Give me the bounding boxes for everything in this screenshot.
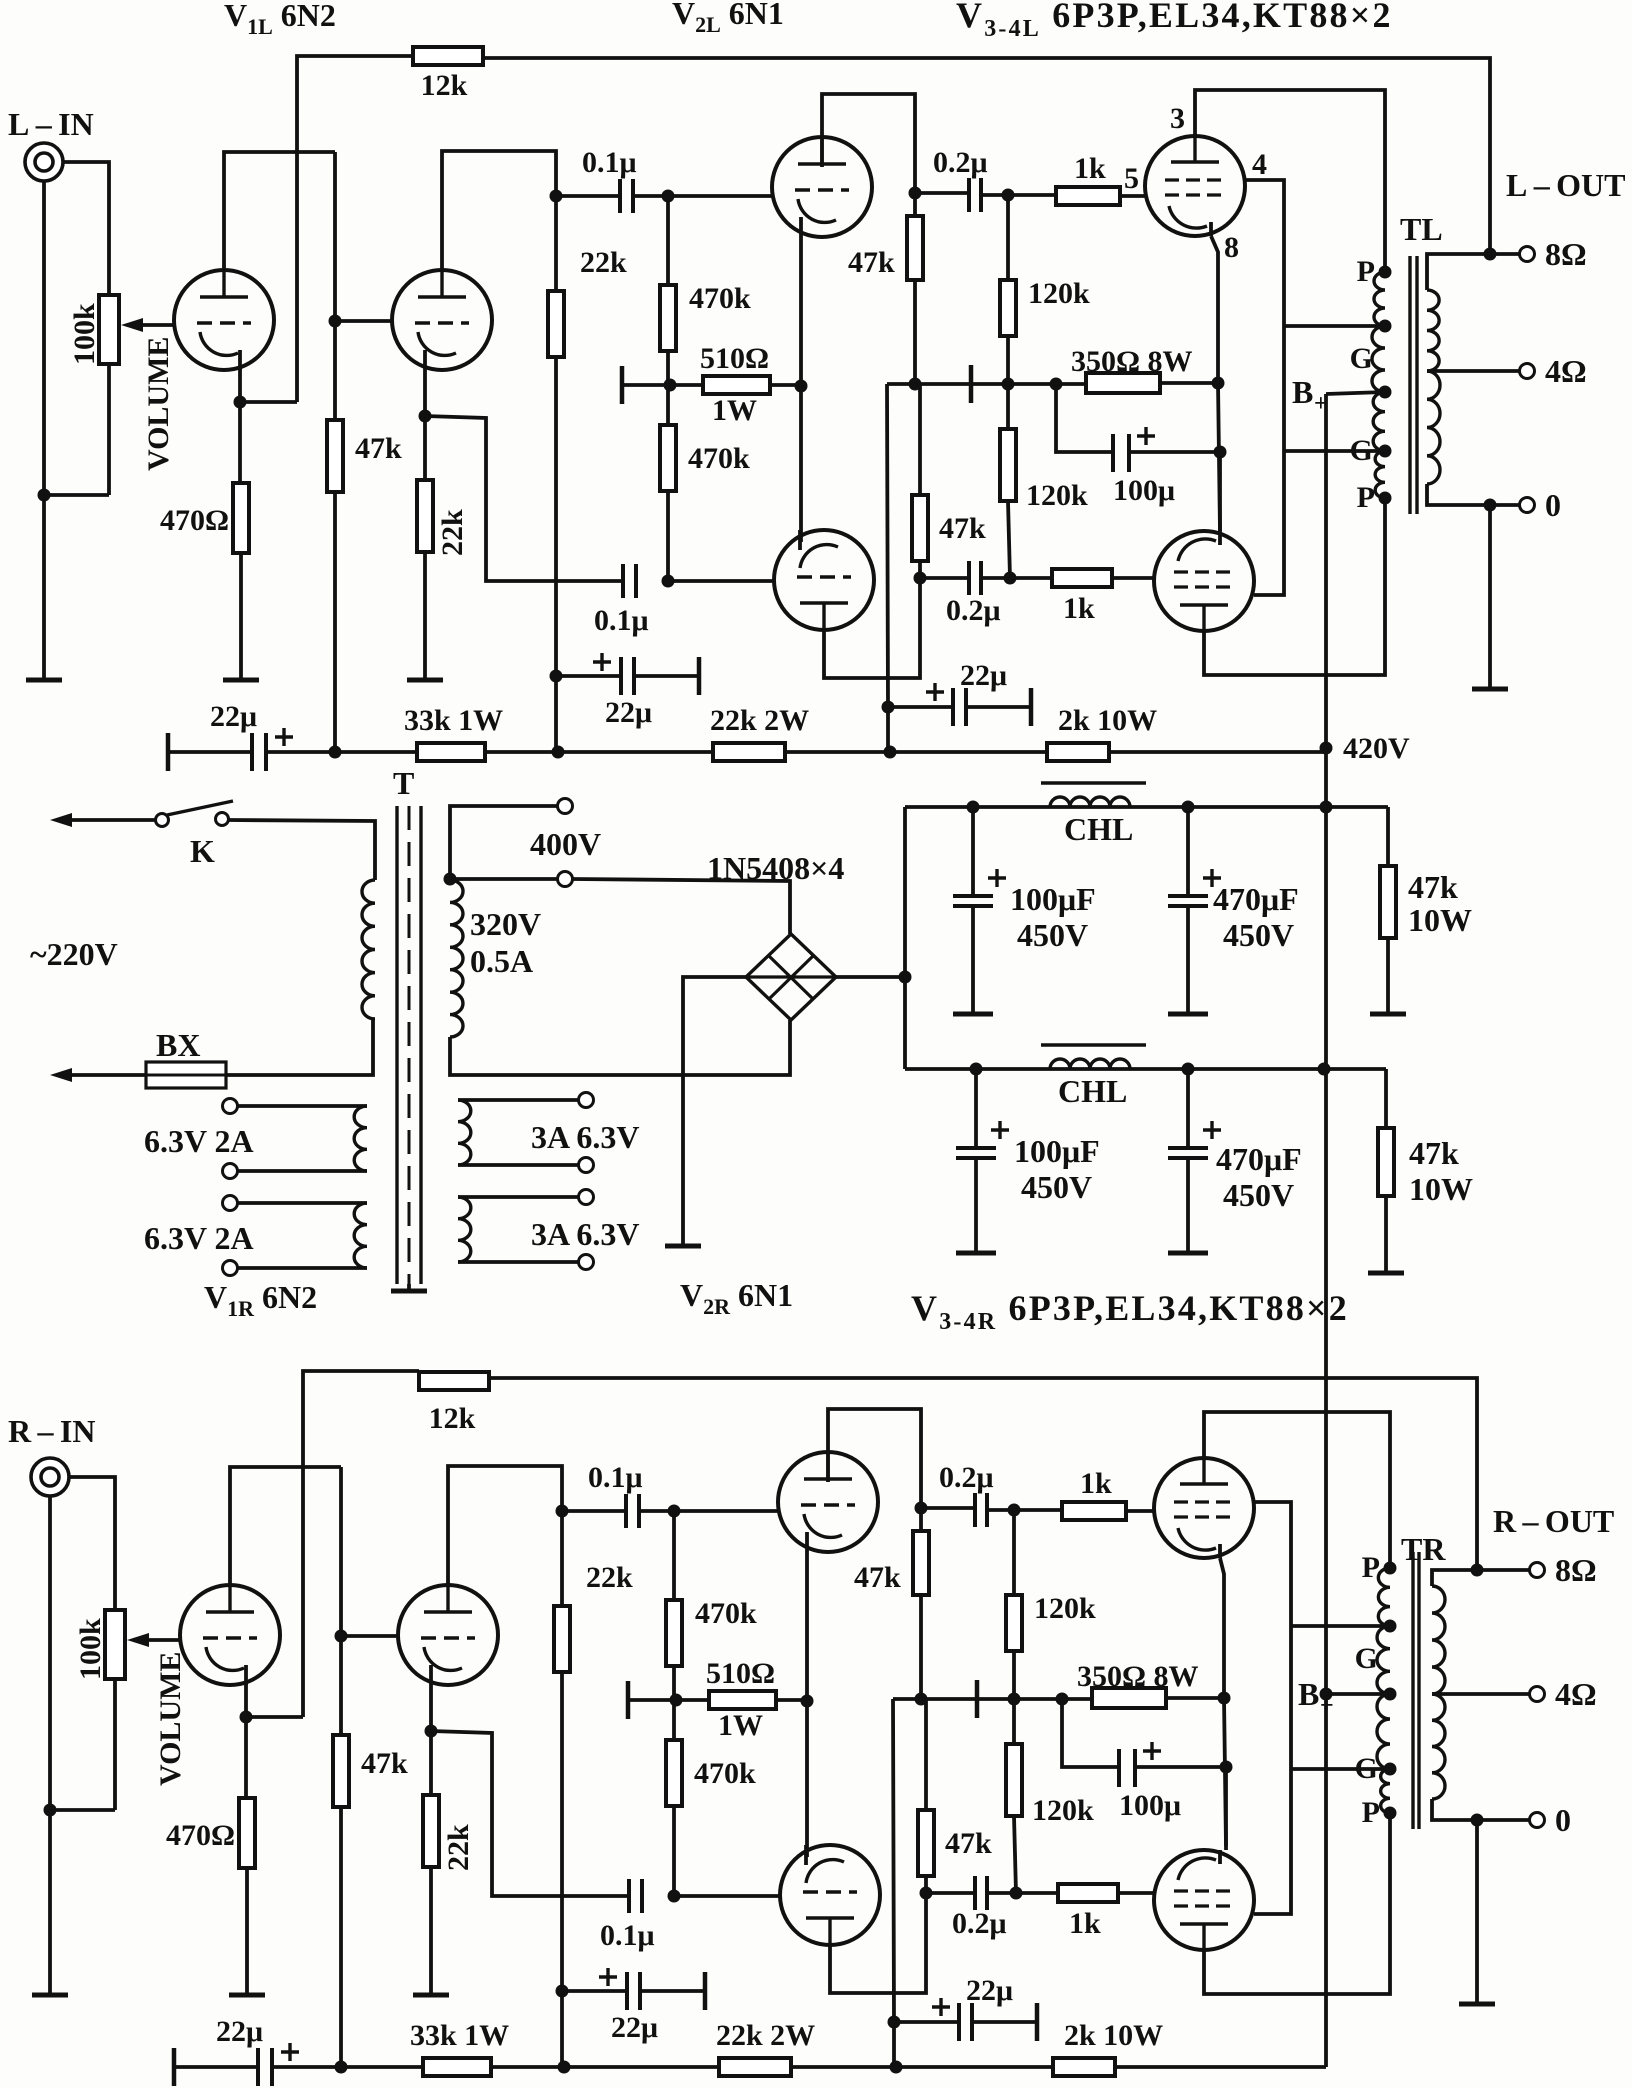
wire 120k lower bottom xyxy=(1008,501,1010,578)
svg-text:1k: 1k xyxy=(1074,152,1106,185)
junction LTP cathode xyxy=(795,380,808,393)
tap G lower xyxy=(1379,445,1392,458)
wire 470uF L top xyxy=(1186,807,1190,894)
plus sign 22u bypass xyxy=(593,653,611,671)
label VOLUME xyxy=(154,1652,187,1786)
input terminal R-IN xyxy=(31,1458,69,1496)
svg-text:450V: 450V xyxy=(1223,917,1294,953)
wire 22k load down xyxy=(560,1672,564,2065)
resistor 120k upper xyxy=(1006,1595,1022,1651)
primary winding section 1 xyxy=(1374,272,1385,326)
wire 1k upper xyxy=(1014,1508,1062,1512)
secondary winding lower xyxy=(1432,1694,1445,1799)
heater terminal 2 xyxy=(223,1164,238,1179)
wire bias row xyxy=(893,1697,1062,1701)
wire 47k lower leads xyxy=(924,1699,928,1810)
label BX xyxy=(156,1027,200,1063)
wire 0.2u lower xyxy=(926,1891,975,1895)
junction 22u out tap xyxy=(882,701,895,714)
label T xyxy=(393,765,414,801)
wire 100uF L bottom xyxy=(971,906,975,1012)
wire 0 to ground xyxy=(1475,1820,1479,2002)
wire V2a plate up xyxy=(828,1409,921,1508)
label B plus sub xyxy=(1314,391,1328,417)
svg-text:4Ω: 4Ω xyxy=(1555,1676,1597,1712)
wire pot bottom to shield xyxy=(44,493,109,497)
junction bias row 120k xyxy=(1008,1693,1021,1706)
wire 4ohm tap xyxy=(1432,1692,1529,1696)
junction DC plus xyxy=(899,971,912,984)
label 0.2u lower xyxy=(946,594,1001,627)
junction 100u left xyxy=(1050,378,1063,391)
svg-text:2k 10W: 2k 10W xyxy=(1058,704,1157,737)
resistor 2k 10W xyxy=(1053,2058,1115,2076)
wire bus segment 3 xyxy=(785,750,1047,754)
label 450V R2 xyxy=(1223,1177,1294,1213)
terminal bar 22u bypass xyxy=(697,657,702,695)
wire 0.1u lower to grid xyxy=(674,1894,780,1898)
wire DC to lower row xyxy=(905,1067,1386,1071)
resistor 33k 1W xyxy=(417,743,485,761)
svg-text:CHL: CHL xyxy=(1058,1073,1127,1109)
wire cathode tap to lower coupling xyxy=(425,416,623,581)
potentiometer 100k body xyxy=(105,1610,125,1679)
svg-text:0.2μ: 0.2μ xyxy=(946,594,1001,627)
label 0.1u lower xyxy=(600,1919,655,1952)
svg-text:TR: TR xyxy=(1401,1531,1446,1567)
label 470k upper xyxy=(689,282,751,315)
svg-text:B: B xyxy=(1298,1676,1319,1712)
end bar bias row xyxy=(969,365,974,403)
wire 22u bypass right xyxy=(640,1989,705,1993)
junction 0 ground xyxy=(1471,1814,1484,1827)
svg-text:VOLUME: VOLUME xyxy=(142,337,175,471)
wire 1k upper xyxy=(1008,193,1056,197)
svg-text:0.1μ: 0.1μ xyxy=(594,604,649,637)
label 0.1u lower xyxy=(594,604,649,637)
junction V1a cathode xyxy=(240,1711,253,1724)
capacitor 100uF 450V L xyxy=(953,896,993,906)
primary winding section 4 xyxy=(1381,1769,1390,1813)
resistor 350ohm 8W xyxy=(1086,373,1160,393)
wire bus segment 2 xyxy=(485,750,713,754)
wire filter row L xyxy=(905,805,1388,809)
pin label 8 xyxy=(1224,231,1239,264)
wire V1a plate row xyxy=(224,152,335,271)
svg-text:47k: 47k xyxy=(361,1747,408,1780)
label 22k 2W xyxy=(710,704,809,737)
heater winding 6.3V 2A upper xyxy=(354,1106,367,1171)
svg-text:22μ: 22μ xyxy=(605,696,652,729)
junction 120k upper xyxy=(1002,189,1015,202)
junction B rail lower row xyxy=(1318,1063,1331,1076)
label 350ohm 8W xyxy=(1071,345,1193,378)
svg-text:100μ: 100μ xyxy=(1119,1789,1181,1822)
label 22k plate xyxy=(580,246,627,279)
wire 100u right xyxy=(1135,1765,1226,1769)
resistor 22k plate load xyxy=(548,291,564,357)
wire fuse to primary xyxy=(226,1019,373,1075)
resistor 22k 2W xyxy=(713,743,785,761)
wire 47k10W R xyxy=(1384,1069,1388,1128)
svg-text:22k: 22k xyxy=(586,1561,633,1594)
wire V1b cathode xyxy=(423,370,427,480)
label P upper xyxy=(1362,1551,1380,1584)
wire 47k lower to row xyxy=(924,1876,928,1893)
junction 47k bus xyxy=(329,746,342,759)
capacitor 22u output bias xyxy=(953,688,966,726)
label OUT xyxy=(1506,167,1626,203)
ground 470ohm xyxy=(229,1993,265,1998)
label 22k cathode xyxy=(436,509,469,556)
svg-text:22k: 22k xyxy=(436,509,469,556)
R-IN label xyxy=(8,1413,95,1449)
junction 420V xyxy=(1320,742,1333,755)
svg-text:22k: 22k xyxy=(442,1824,475,1871)
arrow mains line 2 xyxy=(50,1068,72,1082)
wire heater 3 bottom xyxy=(458,1163,578,1167)
plus sign 22u output xyxy=(932,1998,950,2016)
junction 100u left xyxy=(1056,1693,1069,1706)
label 3A 6.3V upper xyxy=(531,1119,639,1155)
junction 22u out tap xyxy=(888,2016,901,2029)
resistor 33k 1W xyxy=(423,2058,491,2076)
heater winding 3A 6.3V lower xyxy=(458,1197,471,1262)
capacitor 0.2u upper xyxy=(969,178,981,212)
label V2 header xyxy=(672,0,784,37)
label 22u output xyxy=(960,659,1007,692)
wire screen tap upper xyxy=(1284,324,1385,328)
triode V2Ra xyxy=(778,1452,878,1552)
wire bus segment 4 xyxy=(1109,750,1326,754)
label 0.2u upper xyxy=(939,1461,994,1494)
svg-text:V2R 6N1: V2R 6N1 xyxy=(680,1277,793,1319)
svg-text:R – OUT: R – OUT xyxy=(1493,1503,1614,1539)
wire bus segment 4 xyxy=(1115,2065,1326,2069)
feedback top wire xyxy=(483,58,1490,254)
wire 0.2u to 1k xyxy=(987,1508,1014,1512)
label 100uF L xyxy=(1010,881,1096,917)
choke CHL upper winding xyxy=(1050,797,1130,807)
svg-text:2k 10W: 2k 10W xyxy=(1064,2019,1163,2052)
svg-text:1W: 1W xyxy=(718,1709,763,1742)
resistor 12k xyxy=(413,47,483,65)
choke CHL lower bar xyxy=(1041,1043,1146,1046)
resistor 2k 10W xyxy=(1047,743,1109,761)
tap P lower xyxy=(1384,1807,1397,1820)
svg-text:10W: 10W xyxy=(1409,1171,1473,1207)
terminal bar 22u output xyxy=(1029,688,1034,726)
resistor 47k lower splitter xyxy=(918,1810,934,1876)
label G lower xyxy=(1355,1752,1378,1785)
primary winding section 2 xyxy=(1372,326,1385,392)
wire 47k10W L bottom xyxy=(1386,938,1390,1012)
resistor 120k lower xyxy=(1006,1744,1022,1816)
ground secondary xyxy=(1472,687,1508,692)
svg-text:22k 2W: 22k 2W xyxy=(710,704,809,737)
junction HV tap 320V xyxy=(444,873,457,886)
plus sign 22u output xyxy=(926,683,944,701)
label G lower xyxy=(1350,434,1373,467)
capacitor 22u output bias xyxy=(959,2003,972,2041)
svg-text:0.2μ: 0.2μ xyxy=(952,1907,1007,1940)
capacitor 0.1u lower xyxy=(623,564,636,598)
label 8ohm xyxy=(1555,1552,1597,1588)
label 470k lower xyxy=(694,1757,756,1790)
wire cathode tap to lower coupling xyxy=(431,1731,629,1896)
svg-text:22μ: 22μ xyxy=(210,700,257,733)
junction x888 bus xyxy=(890,2061,903,2074)
heater winding 3A 6.3V upper xyxy=(458,1100,471,1165)
svg-text:470Ω: 470Ω xyxy=(166,1819,235,1852)
wire x888 drop xyxy=(887,384,888,750)
label 470ohm xyxy=(166,1819,235,1852)
resistor 120k upper xyxy=(1000,280,1016,336)
wire plate to 0.1u xyxy=(556,194,620,198)
wire screen bus xyxy=(1245,180,1284,595)
pot wiper arrow xyxy=(121,318,176,332)
heater terminal 1 xyxy=(223,1099,238,1114)
switch contact right xyxy=(216,813,229,826)
svg-text:1k: 1k xyxy=(1063,592,1095,625)
ground input jack xyxy=(32,1993,68,1998)
label transformer name xyxy=(1401,1531,1446,1567)
junction 100u right xyxy=(1220,1761,1233,1774)
wire 120k upper bottom xyxy=(1006,336,1010,384)
wire bar to divider xyxy=(628,1698,709,1702)
junction 120k lower xyxy=(1010,1887,1023,1900)
svg-text:CHL: CHL xyxy=(1064,811,1133,847)
wire 470uF L bottom xyxy=(1186,906,1190,1012)
svg-text:12k: 12k xyxy=(429,1402,476,1435)
terminal 4ohm xyxy=(1520,364,1535,379)
wire plate node to 47k xyxy=(919,1508,923,1531)
secondary winding lower xyxy=(1427,371,1440,484)
label 1k lower xyxy=(1063,592,1095,625)
wire 100u right xyxy=(1129,450,1220,454)
label 22u bus xyxy=(216,2015,263,2048)
junction 0.1u out xyxy=(668,1505,681,1518)
wire 1k lower xyxy=(1010,576,1052,580)
svg-text:G: G xyxy=(1350,342,1373,375)
wire 22u out right xyxy=(966,705,1031,709)
junction 100uF L xyxy=(967,801,980,814)
junction row mid xyxy=(915,1693,928,1706)
wire 22u out left xyxy=(888,705,953,709)
resistor 47k 10W L xyxy=(1380,866,1396,938)
label 510ohm xyxy=(700,342,769,375)
pin label 4 xyxy=(1252,148,1267,181)
svg-text:G: G xyxy=(1350,434,1373,467)
svg-text:8Ω: 8Ω xyxy=(1545,236,1587,272)
label V3-4 header xyxy=(956,0,1393,42)
label 100u xyxy=(1113,474,1175,507)
junction shield xyxy=(44,1804,57,1817)
label 47k first xyxy=(355,432,402,465)
triode V1Lb xyxy=(392,270,492,370)
bus cap end bar xyxy=(166,733,171,771)
transformer T primary winding xyxy=(362,880,375,1019)
label 400V xyxy=(530,826,601,862)
wire DC riser xyxy=(903,807,907,1069)
wire 1k to grid xyxy=(1126,1509,1154,1513)
pentode V4R lower output xyxy=(1154,1850,1254,1950)
wire bus left xyxy=(168,750,252,754)
label P lower xyxy=(1362,1796,1380,1829)
wire 100u drop xyxy=(1056,384,1113,452)
wire screen bus xyxy=(1254,1502,1291,1914)
svg-text:5: 5 xyxy=(1124,162,1139,195)
junction feedback 8ohm xyxy=(1484,248,1497,261)
wire 47k10W L xyxy=(1386,807,1390,866)
svg-text:47k: 47k xyxy=(848,246,895,279)
svg-text:0.2μ: 0.2μ xyxy=(933,146,988,179)
ground 470uF R xyxy=(1168,1251,1208,1256)
label 1W xyxy=(712,394,757,427)
plus sign 100u xyxy=(1143,1742,1161,1760)
resistor 47k first xyxy=(333,1735,349,1807)
arrow mains line 1 xyxy=(50,813,72,827)
label 3A 6.3V lower xyxy=(531,1216,639,1252)
wire 100uF L top xyxy=(971,807,975,894)
wire V2a plate up xyxy=(822,94,915,193)
label 100k xyxy=(74,1618,107,1680)
wire V1a cathode xyxy=(244,1683,248,1798)
wire 470k lower bottom xyxy=(666,491,670,581)
label 0.5A xyxy=(470,943,533,979)
label 4ohm xyxy=(1555,1676,1597,1712)
wire pot bottom xyxy=(113,1679,117,1810)
wire 22u bypass right xyxy=(634,674,699,678)
resistor 470k lower xyxy=(666,1740,682,1806)
capacitor 0.2u lower xyxy=(969,561,981,595)
wire 47k bottom to bus xyxy=(339,1807,343,2065)
resistor 22k 2W xyxy=(719,2058,791,2076)
junction 0 ground xyxy=(1484,499,1497,512)
label 470k lower xyxy=(688,442,750,475)
wire 320V tap xyxy=(450,877,557,881)
svg-text:1k: 1k xyxy=(1069,1907,1101,1940)
wire plate to 0.1u xyxy=(562,1509,626,1513)
wire 47k lower leads xyxy=(918,384,922,495)
svg-text:0.1μ: 0.1μ xyxy=(582,146,637,179)
junction V1a cathode xyxy=(234,396,247,409)
wire 47k top xyxy=(339,1467,343,1735)
switch contact left xyxy=(156,814,169,827)
resistor 470k upper xyxy=(666,1600,682,1666)
svg-text:100μ: 100μ xyxy=(1113,474,1175,507)
wire 470k upper top xyxy=(672,1511,676,1600)
wire 470ohm to ground xyxy=(245,1868,249,1994)
capacitor 0.1u lower xyxy=(629,1879,642,1913)
junction 22u bypass tap xyxy=(550,670,563,683)
junction V1b grid node xyxy=(335,1630,348,1643)
wire 120k lower bottom xyxy=(1014,1816,1016,1893)
svg-text:B: B xyxy=(1292,374,1313,410)
junction V2a plate node xyxy=(909,187,922,200)
wire 47k to row xyxy=(919,1595,923,1699)
wire 470uF R bottom xyxy=(1186,1158,1190,1251)
wire 12k left leg xyxy=(297,56,413,402)
junction 100uF R xyxy=(970,1063,983,1076)
junction x888 bus xyxy=(884,746,897,759)
svg-text:0.2μ: 0.2μ xyxy=(939,1461,994,1494)
capacitor 0.1u upper xyxy=(620,179,633,213)
svg-text:510Ω: 510Ω xyxy=(706,1657,775,1690)
bus cap end bar xyxy=(172,2048,177,2086)
svg-text:L – OUT: L – OUT xyxy=(1506,167,1626,203)
wire heater 2 top xyxy=(237,1201,367,1205)
label 120k lower xyxy=(1032,1794,1094,1827)
wire 470uF R top xyxy=(1186,1069,1190,1146)
wire input shield down xyxy=(48,1496,52,1994)
wire mains 2 to fuse xyxy=(70,1073,146,1077)
wire secondary top xyxy=(1432,1570,1529,1586)
label 510ohm xyxy=(706,1657,775,1690)
svg-text:22k 2W: 22k 2W xyxy=(716,2019,815,2052)
pin label 5 xyxy=(1124,162,1139,195)
label B plus sub xyxy=(1320,1693,1334,1719)
svg-text:47k: 47k xyxy=(939,512,986,545)
wire heater 1 bottom xyxy=(237,1169,367,1173)
wire lower plate riser xyxy=(830,1893,926,1993)
secondary winding upper xyxy=(1427,290,1439,371)
svg-text:470k: 470k xyxy=(694,1757,756,1790)
wire HV top to 400V xyxy=(450,806,557,880)
wire bias row xyxy=(887,382,1056,386)
terminal 320V xyxy=(558,872,573,887)
svg-text:100k: 100k xyxy=(68,303,101,365)
heater winding 6.3V 2A lower xyxy=(354,1203,367,1268)
heater terminal 3 xyxy=(223,1196,238,1211)
resistor 470ohm xyxy=(239,1798,255,1868)
wire V1b plate row xyxy=(442,151,556,291)
svg-text:K: K xyxy=(190,833,215,869)
label 450V L2 xyxy=(1223,917,1294,953)
wire 100uF R top xyxy=(974,1069,978,1146)
resistor 510ohm xyxy=(703,376,770,394)
junction lower coupling xyxy=(662,575,675,588)
svg-text:120k: 120k xyxy=(1034,1592,1096,1625)
junction 470uF R xyxy=(1182,1063,1195,1076)
L-IN label xyxy=(8,106,94,142)
wire secondary top xyxy=(1427,254,1519,290)
wire HV bottom to bridge xyxy=(450,1020,790,1075)
svg-text:~220V: ~220V xyxy=(30,936,118,972)
resistor 22k cathode xyxy=(423,1795,439,1867)
wire bias row right xyxy=(1056,382,1086,386)
wire cathode to 12k node xyxy=(240,400,297,404)
wire to V2 grid xyxy=(674,1509,778,1513)
wire screen tap upper xyxy=(1291,1624,1390,1628)
wire 22k cathode ground xyxy=(429,1867,433,1994)
wire V2a cathode down xyxy=(805,1552,809,1857)
plus sign 100uF R xyxy=(991,1121,1009,1139)
triode V1Rb xyxy=(398,1585,498,1685)
wire B plus to TR tap xyxy=(1326,1692,1390,1696)
svg-text:22μ: 22μ xyxy=(960,659,1007,692)
junction 22k bus xyxy=(552,746,565,759)
junction 100u right xyxy=(1214,446,1227,459)
label G upper xyxy=(1355,1642,1378,1675)
capacitor 470uF 450V L xyxy=(1168,896,1208,906)
label 0.2u upper xyxy=(933,146,988,179)
svg-text:47k: 47k xyxy=(1409,1135,1459,1171)
label 47k lower splitter xyxy=(939,512,986,545)
label 120k lower xyxy=(1026,479,1088,512)
heater terminal 8 xyxy=(579,1255,594,1270)
wire 470k upper bottom xyxy=(666,351,670,385)
